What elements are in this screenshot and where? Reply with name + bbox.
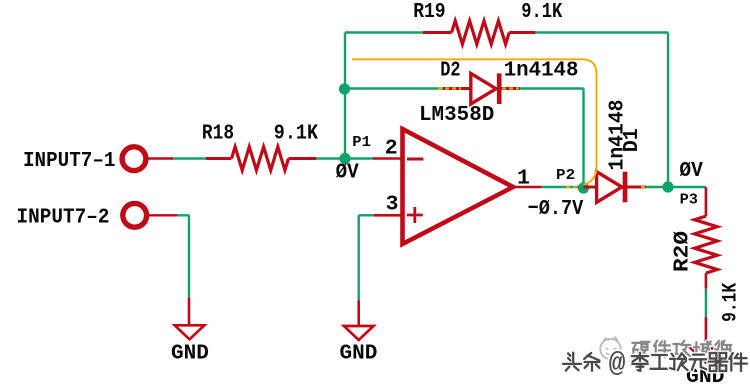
- wire pin3 horizontal: [359, 214, 374, 216]
- highlight dashes output: [566, 186, 580, 188]
- terminal INPUT7-2: [123, 203, 147, 227]
- wire R18 to P1 node: [316, 157, 373, 159]
- ground symbol input: [175, 325, 205, 339]
- svg-text:R18: R18: [202, 121, 234, 145]
- resistor R20: [695, 216, 718, 273]
- diode D1: [584, 186, 597, 189]
- node P2 junction: [578, 182, 589, 193]
- highlight dashes D2 anode: [438, 87, 461, 89]
- wire to corner: [177, 214, 189, 216]
- wire D1 to P3: [646, 186, 668, 188]
- wire R19 to right corner: [536, 31, 668, 33]
- pin 1 stub: [511, 186, 542, 189]
- svg-text:−Ø.7V: −Ø.7V: [528, 197, 584, 221]
- wire corner down: [188, 215, 190, 298]
- highlight path orange: [352, 59, 597, 185]
- svg-text:2: 2: [385, 136, 398, 160]
- op-amp U1 LM358D: [403, 129, 514, 244]
- svg-text:GND: GND: [171, 341, 209, 365]
- node P3 junction: [662, 181, 673, 192]
- wire gnd stub red: [357, 300, 360, 326]
- svg-text:P3: P3: [680, 192, 698, 209]
- wire green segment: [705, 289, 707, 318]
- wire corner down red: [705, 187, 708, 216]
- wire gnd stub red: [188, 298, 191, 325]
- wire terminal stub red: [147, 214, 177, 216]
- wire gnd stub red: [705, 317, 708, 348]
- svg-text:R2Ø: R2Ø: [670, 231, 694, 272]
- node P1 junction: [339, 153, 350, 164]
- wire right vertical down to P3: [667, 33, 669, 188]
- watermark line2: [568, 353, 570, 355]
- pin 2 stub: [373, 157, 403, 160]
- wire pin3 vertical: [358, 215, 360, 300]
- wire node to D2 anode: [345, 87, 444, 89]
- wire D2 corner down to P2: [582, 89, 584, 188]
- svg-text:@: @: [609, 349, 626, 380]
- svg-text:ØV: ØV: [336, 161, 359, 185]
- svg-text:9.1K: 9.1K: [274, 121, 318, 145]
- svg-text:LM358D: LM358D: [419, 103, 494, 127]
- svg-text:INPUT7–2: INPUT7–2: [17, 206, 110, 230]
- node D2 tap junction: [339, 83, 350, 94]
- wire terminal stub red: [146, 157, 173, 159]
- svg-text:9.1K: 9.1K: [719, 283, 742, 322]
- wire output green: [542, 186, 584, 188]
- svg-text:9.1K: 9.1K: [521, 0, 562, 24]
- watermark line1: [632, 341, 640, 345]
- op-amp plus input mark: [407, 214, 423, 217]
- svg-text:ØV: ØV: [679, 159, 702, 183]
- ground symbol output: [691, 349, 721, 363]
- resistor R19: [423, 31, 452, 34]
- terminal INPUT7-1: [122, 147, 146, 171]
- svg-text:1n4148: 1n4148: [504, 59, 579, 83]
- svg-text:3: 3: [386, 193, 399, 217]
- op-amp minus input mark: [407, 158, 423, 161]
- highlight dashes D1 cathode: [641, 186, 656, 188]
- svg-text:P1: P1: [352, 134, 371, 151]
- wire D2 cathode to corner: [520, 87, 584, 89]
- svg-text:D1: D1: [620, 128, 644, 152]
- svg-text:GND: GND: [340, 342, 378, 366]
- svg-text:INPUT7–1: INPUT7–1: [23, 149, 116, 173]
- highlight dashes D2 cathode: [502, 87, 519, 89]
- wire P3 to corner: [668, 186, 706, 188]
- resistor R18: [206, 157, 232, 160]
- wire feedback top to R19: [345, 31, 423, 33]
- pin 3 stub: [374, 214, 403, 217]
- watermark logo circle: [600, 339, 620, 359]
- diode D2: [443, 87, 471, 90]
- wire green to R18: [173, 157, 206, 159]
- wire feedback vertical: [344, 33, 346, 159]
- svg-text:R19: R19: [413, 0, 445, 24]
- svg-text:D2: D2: [440, 59, 460, 83]
- svg-text:1: 1: [517, 166, 530, 190]
- ground symbol op-amp: [344, 326, 374, 340]
- svg-text:P2: P2: [556, 167, 575, 184]
